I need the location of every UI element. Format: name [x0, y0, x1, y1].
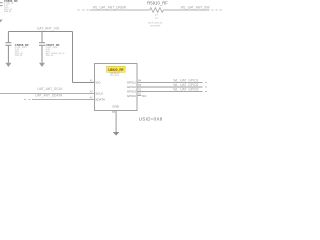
svg-text:U5920_RF: U5920_RF — [108, 68, 123, 72]
wire (GPIO4 stub) — [137, 95, 141, 97]
resistor R5910_RF (inline zigzag) — [150, 8, 164, 13]
svg-text:UAT_ANT_VIO: UAT_ANT_VIO — [37, 26, 60, 30]
label U5920_RF (yellow highlight) — [107, 66, 126, 72]
svg-text:UAT_ANT_SCLK: UAT_ANT_SCLK — [37, 87, 63, 91]
svg-text:SCLK: SCLK — [95, 91, 103, 95]
svg-text:WL_UAT_ANT_UNSW: WL_UAT_ANT_UNSW — [93, 5, 127, 9]
wire (VIO net: horizontal run, drop, into pin A1) — [8, 32, 94, 83]
value U5920_RF part — [110, 73, 120, 77]
junction (C5807_RF tap on VIO net) — [41, 31, 43, 33]
svg-text:C5808_RF: C5808_RF — [15, 43, 29, 47]
wire SCLK — [0, 93, 95, 95]
svg-text:VIO: VIO — [95, 80, 101, 84]
wire (GND stub down) — [115, 111, 117, 132]
svg-text:NOSTUFF: NOSTUFF — [150, 25, 161, 27]
svg-text:SDATA: SDATA — [95, 97, 105, 101]
svg-text:MCF_0201_M: MCF_0201_M — [148, 22, 162, 24]
svg-text:GPIO1: GPIO1 — [127, 80, 137, 84]
svg-text:X5R_M: X5R_M — [15, 55, 22, 57]
wire (top net, right continuation dashes) — [212, 9, 222, 11]
wire WL_TO_UAT_GPIO1 — [137, 82, 203, 84]
svg-text:GPIO2: GPIO2 — [127, 85, 137, 89]
svg-text:USID=0X8: USID=0X8 — [139, 117, 163, 122]
ground (C5808_RF) — [5, 63, 11, 67]
svg-text:X5R_M: X5R_M — [46, 55, 53, 57]
svg-text:R5910_RF: R5910_RF — [147, 0, 168, 5]
wire SDATA (with leading dashes) — [24, 99, 31, 101]
svg-text:WL_UAT_GPIO1: WL_UAT_GPIO1 — [173, 78, 198, 82]
svg-text:GPIO4: GPIO4 — [127, 94, 137, 98]
wire (top net, left solid segment) — [90, 9, 150, 11]
IC U5920_RF body — [95, 64, 138, 111]
svg-text:WL_UAT_GPIO3: WL_UAT_GPIO3 — [173, 87, 198, 91]
wire (top net, left continuation dashes) — [78, 9, 89, 11]
ground (IC GND) — [113, 132, 120, 136]
ground (C5807_RF) — [39, 63, 45, 67]
svg-text:UAT_ANT_SDATA: UAT_ANT_SDATA — [35, 94, 63, 98]
capacitor C5807_RF — [39, 32, 45, 63]
wire WL_TO_UAT_GPIO2 — [137, 86, 203, 88]
svg-text:GND: GND — [112, 105, 120, 109]
ground (C5806_RF) — [0, 20, 3, 24]
svg-text:WL_UAT_ANT_SW: WL_UAT_ANT_SW — [181, 6, 211, 10]
capacitor C5808_RF — [5, 32, 11, 63]
svg-text:WL_UAT_GPIO2: WL_UAT_GPIO2 — [173, 83, 198, 87]
svg-text:GPIO3: GPIO3 — [127, 89, 137, 93]
value R5910_RF — [148, 14, 162, 27]
svg-text:WLCSP9: WLCSP9 — [110, 75, 120, 77]
svg-text:X5R_M: X5R_M — [4, 11, 11, 13]
capacitor C5806_RF (top-left corner, clipped at edge) — [0, 0, 3, 20]
svg-text:C5807_RF: C5807_RF — [46, 43, 60, 47]
wire (top net, right segment) — [163, 9, 209, 11]
svg-text:1%: 1% — [155, 18, 158, 20]
wire WL_TO_UAT_GPIO3 — [137, 91, 203, 93]
